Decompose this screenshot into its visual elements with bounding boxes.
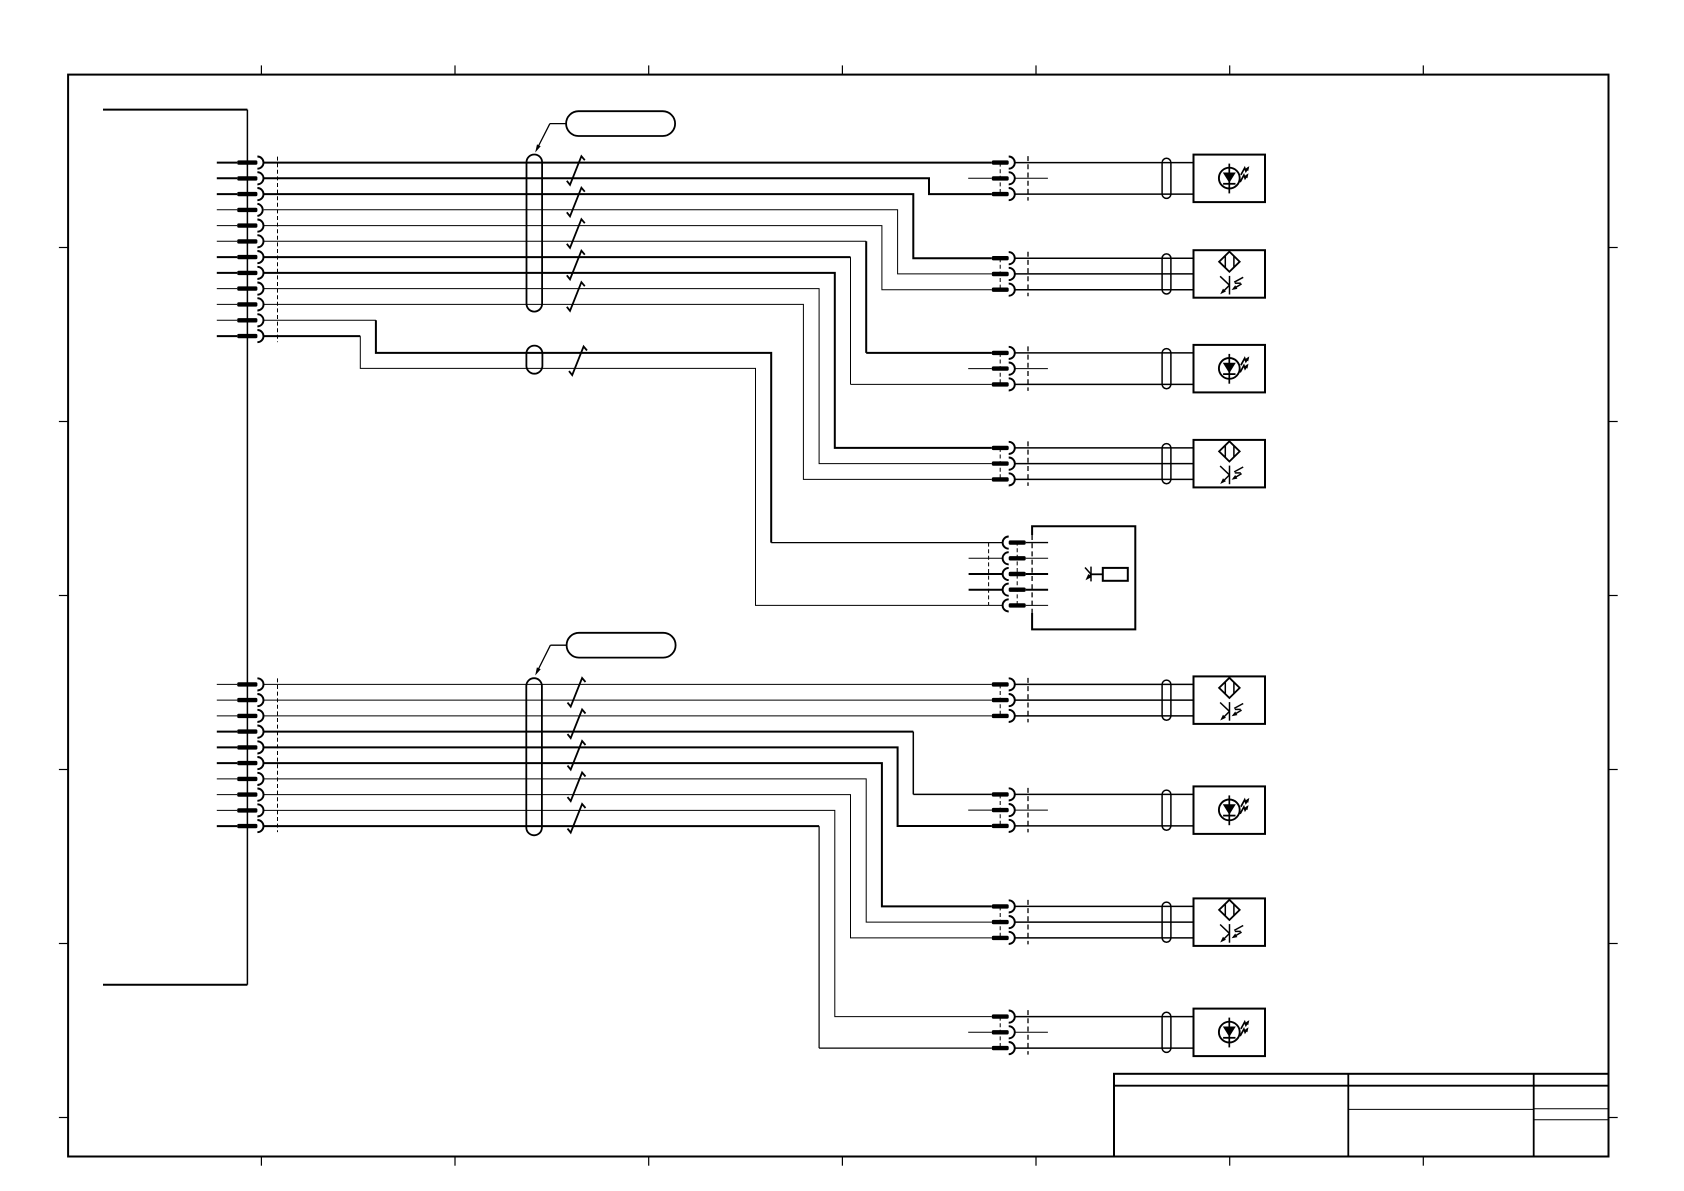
wire X1:17 to X8:3 (264, 747, 992, 826)
wire X1:21 to X10:1 (264, 810, 992, 1016)
inline connector X7 dashed line 2 (1027, 678, 1029, 723)
cable W1 marker (527, 155, 543, 312)
connector X1 pin 15 (217, 710, 264, 722)
valve connector X11 dashed line 2 (1016, 542, 1018, 607)
inline connector X9 pin 2 (992, 916, 1015, 928)
wire X5 to sensor B3 (1015, 352, 1194, 354)
title block (1114, 1074, 1609, 1157)
inline connector X5 pin 2 (992, 363, 1015, 375)
cable W3 twisted-pair slash 2 (568, 710, 586, 739)
inline connector X5 pin 1 (992, 347, 1015, 359)
wire X1:20 to X9:3 (264, 795, 992, 938)
connector X1 pin 12 (217, 330, 264, 342)
sensor B8 (photoelectric emitter) (1194, 1009, 1266, 1057)
wire X8 to sensor B6 (1015, 825, 1194, 827)
valve connector X11 pin 4 (1003, 584, 1049, 596)
inline connector X8 dashed line 1 (999, 794, 1001, 826)
inline connector X6 pin 1 (992, 442, 1015, 454)
inline connector X3 pin 2 stub (968, 177, 1048, 179)
connector X1 pin 19 (217, 773, 264, 785)
sensor B2 (photoelectric receiver) (1194, 250, 1266, 298)
connector X1 pin 10 (217, 298, 264, 310)
cable W3 twisted-pair slash 4 (568, 773, 586, 802)
inline connector X6 dashed line 2 (1027, 441, 1029, 486)
cable marker at sensor B2 (1162, 254, 1171, 294)
wire X1:18 to X9:1 (264, 763, 992, 906)
wire X8 to sensor B6 (1015, 793, 1194, 795)
connector X1 pin 1 (217, 157, 264, 169)
inline connector X6 dashed line 1 (999, 448, 1001, 480)
sensor B5 (photoelectric receiver) (1194, 676, 1266, 724)
cable W3 twisted-pair slash 3 (568, 741, 586, 770)
inline connector X9 pin 3 (992, 932, 1015, 944)
valve connector X11 pin 3 stub (969, 573, 1003, 575)
connector X1 pin 14 (217, 694, 264, 706)
wire X1:15 to X7:3 (264, 715, 992, 717)
connector X1 pin 11 (217, 314, 264, 326)
inline connector X10 pin 2 (992, 1026, 1015, 1038)
cable W3 twisted-pair slash 1 (568, 678, 586, 707)
inline connector X4 dashed line 1 (999, 258, 1001, 290)
wire X1:22 to X10:3 (264, 826, 992, 1048)
wire X1:11 to X11:1 (264, 320, 1003, 542)
inline connector X9 dashed line 2 (1027, 900, 1029, 945)
valve connector X11 pin 3 (1003, 568, 1048, 580)
wire X6 to sensor B4 (1015, 463, 1194, 465)
cable W1 twisted-pair slash 3 (567, 219, 585, 248)
valve connector X11 dashed line 1 (988, 543, 990, 606)
wire X1:6 to X5:1 (264, 241, 992, 353)
connector X1 pin 22 (217, 820, 264, 832)
cable marker at sensor B4 (1162, 444, 1171, 484)
connector X1 bus rail (103, 110, 247, 985)
inline connector X10 dashed line 2 (1027, 1010, 1029, 1055)
solenoid valve Y1 (1032, 526, 1135, 629)
inline connector X4 pin 1 (992, 252, 1015, 264)
wire X1:5 to X4:3 (264, 226, 992, 290)
inline connector X4 dashed line 2 (1027, 252, 1029, 297)
sensor B3 (photoelectric emitter) (1194, 345, 1266, 393)
cable marker at sensor B7 (1162, 902, 1171, 942)
wire X7 to sensor B5 (1015, 715, 1194, 717)
inline connector X9 dashed line 1 (999, 906, 1001, 938)
connector X1 pin 13 (217, 678, 264, 690)
inline connector X10 pin 1 (992, 1011, 1015, 1023)
connector X1 pin 5 (217, 220, 264, 232)
inline connector X5 dashed line 2 (1027, 346, 1029, 391)
inline connector X8 pin 2 stub (968, 809, 1048, 811)
inline connector X7 pin 3 (992, 710, 1015, 722)
cable W2 marker (valve branch) (526, 346, 542, 374)
cable W1 label balloon (535, 111, 675, 152)
sensor B4 (photoelectric receiver) (1194, 440, 1266, 488)
cable marker at sensor B3 (1162, 349, 1171, 389)
inline connector X10 pin 2 stub (968, 1031, 1048, 1033)
inline connector X6 pin 3 (992, 473, 1015, 485)
wire X1:1 to X3:1 (264, 162, 992, 164)
connector X1 pin 9 (217, 283, 264, 295)
valve connector X11 pin 1 (1003, 537, 1049, 549)
inline connector X3 pin 2 (992, 172, 1015, 184)
cable marker at sensor B8 (1162, 1012, 1171, 1052)
valve connector X11 pin 2 stub (969, 557, 1003, 559)
wire X1:2 to X3:3 (264, 178, 992, 194)
connector X1 pin 8 (217, 267, 264, 279)
inline connector X5 pin 2 stub (968, 368, 1048, 370)
inline connector X3 dashed line 2 (1027, 156, 1029, 201)
inline connector X8 pin 3 (992, 820, 1015, 832)
wire X9 to sensor B7 (1015, 905, 1194, 907)
inline connector X5 dashed line 1 (999, 353, 1001, 385)
inline connector X3 dashed line 1 (999, 163, 1001, 195)
inline connector X10 dashed line 1 (999, 1017, 1001, 1049)
cable marker at sensor B1 (1162, 158, 1171, 198)
wire X1:14 to X7:2 (264, 699, 992, 701)
inline connector X8 pin 2 (992, 804, 1015, 816)
wire X1:16 to X8:1 (264, 732, 992, 795)
connector X1 pin 4 (217, 204, 263, 216)
cable W1 twisted-pair slash 1 (567, 156, 585, 185)
inline connector X5 pin 3 (992, 378, 1015, 390)
wire X6 to sensor B4 (1015, 447, 1194, 449)
connector X1 pin 2 (217, 172, 264, 184)
inline connector X7 dashed line 1 (999, 684, 1001, 716)
wire X5 to sensor B3 (1015, 383, 1194, 385)
inline connector X3 pin 3 (992, 188, 1015, 200)
wire X1:7 to X5:3 (264, 257, 992, 384)
wire X9 to sensor B7 (1015, 937, 1194, 939)
wire X3 to sensor B1 (1015, 162, 1194, 164)
cable W1 twisted-pair slash 2 (567, 188, 585, 217)
connector X1 pin 21 (217, 804, 264, 816)
inline connector X3 pin 1 (992, 157, 1015, 169)
connector X1 pin 7 (217, 251, 264, 263)
wire X10 to sensor B8 (1015, 1016, 1194, 1018)
sensor B1 (photoelectric emitter) (1194, 155, 1266, 203)
connector X1 pin field dashed line (bottom group) (277, 678, 279, 832)
wire X6 to sensor B4 (1015, 478, 1194, 480)
inline connector X7 pin 2 (992, 694, 1015, 706)
wire X1:13 to X7:1 (264, 683, 992, 685)
wire X1:8 to X6:1 (264, 273, 992, 448)
valve connector X11 pin 4 stub (969, 589, 1003, 591)
wire X7 to sensor B5 (1015, 699, 1194, 701)
wire X1:12 to X11:5 (264, 336, 1003, 605)
wire X4 to sensor B2 (1015, 257, 1194, 259)
cable W3 twisted-pair slash 5 (568, 804, 586, 833)
connector X1 pin 18 (217, 757, 264, 769)
inline connector X8 pin 1 (992, 788, 1015, 800)
valve connector X11 pin 2 (1003, 552, 1049, 564)
wire X1:4 to X4:2 (264, 210, 992, 274)
wire X1:9 to X6:2 (264, 289, 992, 464)
cable W1 twisted-pair slash 4 (567, 251, 585, 280)
cable W3 label balloon (535, 633, 675, 676)
inline connector X6 pin 2 (992, 458, 1015, 470)
sensor B7 (photoelectric receiver) (1194, 898, 1266, 946)
wire X4 to sensor B2 (1015, 289, 1194, 291)
inline connector X7 pin 1 (992, 678, 1015, 690)
cable W3 marker (526, 678, 542, 835)
valve Y1 coil symbol (1085, 567, 1128, 582)
wire X9 to sensor B7 (1015, 921, 1194, 923)
wire X10 to sensor B8 (1015, 1047, 1194, 1049)
connector X1 pin 17 (217, 741, 264, 753)
cable W2 twisted-pair slash (569, 347, 587, 376)
wire X4 to sensor B2 (1015, 273, 1194, 275)
inline connector X4 pin 2 (992, 268, 1015, 280)
wire X7 to sensor B5 (1015, 683, 1194, 685)
inline connector X10 pin 3 (992, 1042, 1015, 1054)
wire X1:10 to X6:3 (264, 304, 992, 479)
connector X1 pin field dashed line (top group) (277, 157, 279, 343)
valve connector X11 pin 5 (1003, 599, 1049, 611)
sensor B6 (photoelectric emitter) (1194, 786, 1266, 834)
cable marker at sensor B5 (1162, 680, 1171, 720)
connector X1 pin 3 (217, 188, 264, 200)
cable W1 twisted-pair slash 5 (567, 282, 585, 311)
connector X1 pin 16 (217, 726, 264, 738)
wire X3 to sensor B1 (1015, 193, 1194, 195)
inline connector X4 pin 3 (992, 284, 1015, 296)
wire X1:19 to X9:2 (264, 779, 992, 922)
cable marker at sensor B6 (1162, 790, 1171, 830)
connector X1 pin 20 (217, 789, 264, 801)
connector X1 pin 6 (217, 235, 264, 247)
wire X1:3 to X4:1 (264, 194, 992, 258)
inline connector X9 pin 1 (992, 900, 1015, 912)
inline connector X8 dashed line 2 (1027, 788, 1029, 833)
